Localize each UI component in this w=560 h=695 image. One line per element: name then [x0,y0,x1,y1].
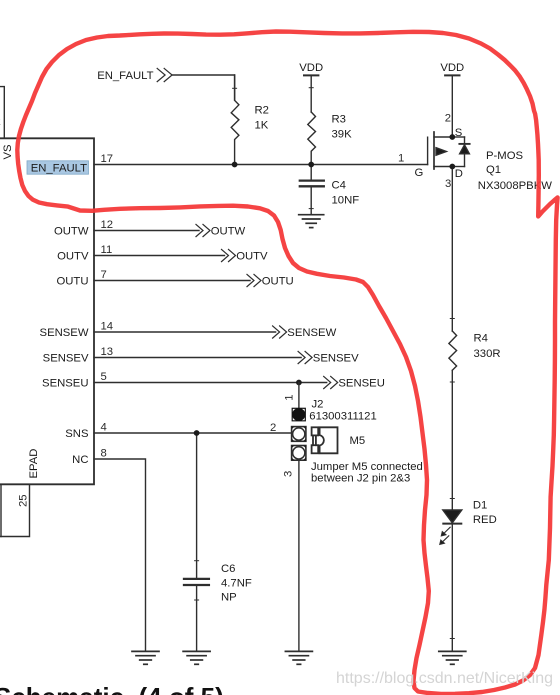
J2 pin number 2 [270,422,276,434]
svg-text:SENSEU: SENSEU [338,378,384,390]
svg-text:G: G [415,167,424,179]
LED D1 emission arrows [440,527,450,544]
junction dot R2/net [232,162,238,168]
svg-text:8: 8 [101,448,107,460]
pin end tick D1 bottom [450,638,454,640]
Q1 pin number 1 [398,153,404,165]
svg-text:S: S [455,127,463,139]
pin number 13 [101,346,114,358]
label R2 value [255,120,269,132]
pin VS stub above IC [0,87,4,139]
label C6 designator [221,563,235,575]
pin name SNS [65,428,89,440]
wire net EN_FAULT pin17 to gate [94,164,428,166]
pin number 17 [101,153,114,165]
svg-text:SENSEW: SENSEW [287,327,336,339]
pin end tick R4 top [450,318,454,320]
svg-text:SENSEW: SENSEW [40,327,89,339]
svg-text:NX3008PBKW: NX3008PBKW [478,180,552,192]
pin name SENSEW [40,327,89,339]
pin number 12 [101,219,114,231]
label Q1 designator [486,164,501,176]
pin number 7 [101,269,107,281]
Q1 pin letter D [455,168,463,180]
IC U1 body (partial, left edge off-canvas) [0,138,94,484]
label R4 designator [474,333,488,345]
svg-text:https://blog.csdn.net/NicerKin: https://blog.csdn.net/NicerKing [336,670,553,687]
svg-text:Q1: Q1 [486,164,501,176]
svg-text:VDD: VDD [299,62,323,74]
clipped pin number at left edge [0,116,1,128]
label R4 value [474,348,501,360]
svg-text:between J2 pin 2&3: between J2 pin 2&3 [311,473,410,485]
wire OUTV [94,255,225,257]
port chevron OUTV [222,249,236,261]
pin end tick C6 top [195,560,199,562]
Q1 pin number 2 [445,113,451,125]
svg-text:2: 2 [0,116,1,128]
svg-text:OUTV: OUTV [57,251,89,263]
pin name NC [72,454,88,466]
pin number 25 (rotated) [18,494,30,507]
junction dot SENSEU/J2 [296,380,302,386]
pin name EPAD (rotated) [28,449,40,479]
svg-text:11: 11 [101,244,113,256]
svg-text:Jumper M5 connected: Jumper M5 connected [311,461,423,473]
ground D1 net [439,651,466,664]
Q1 pin number 3 [445,178,451,190]
svg-text:10NF: 10NF [332,195,360,207]
label J2 part 61300311121 [309,410,376,422]
power VDD rail 2 over Q1 [445,75,459,137]
svg-text:61300311121: 61300311121 [309,410,376,422]
port chevron OUTU [247,274,261,286]
svg-text:P-MOS: P-MOS [486,150,523,162]
pin end tick C4 bottom [309,208,313,210]
svg-text:1: 1 [398,153,404,165]
watermark [336,670,553,687]
svg-text:SENSEV: SENSEV [43,353,89,365]
svg-text:39K: 39K [332,129,353,141]
note jumper text line1 [311,461,423,473]
svg-text:3: 3 [445,178,451,190]
label J2 designator [312,398,324,410]
svg-text:12: 12 [101,219,114,231]
label R2 designator [255,105,269,117]
wire R4 to D1 [451,371,453,511]
pin end tick R2 top [233,87,237,89]
port chevron SENSEV [298,351,312,363]
label D1 designator [473,500,487,512]
junction dot R3/C4 net [308,162,314,168]
port label EN_FAULT [97,70,153,82]
pin name VS (rotated) [2,144,14,160]
pin number 14 [101,321,114,333]
svg-text:2: 2 [270,422,276,434]
svg-text:VDD: VDD [440,62,464,74]
capacitor C6 [184,579,209,585]
ground J2 pin3 [285,651,312,664]
port label SENSEV [313,353,359,365]
wire EN_FAULT port to R2 [172,75,235,100]
svg-text:M5: M5 [350,435,366,447]
svg-text:330R: 330R [474,348,501,360]
pin end tick R3 top [309,87,313,89]
port label SENSEW [287,327,336,339]
pin name OUTU [56,276,88,288]
J2 pin number 1 (rotated) [283,395,295,401]
wire SNS to J2 pin2 [94,432,292,434]
port chevron SENSEU [324,376,338,388]
svg-text:OUTW: OUTW [54,226,89,238]
pin name OUTV [57,251,89,263]
svg-text:4: 4 [101,422,107,434]
pin end tick D1 top [450,498,454,500]
svg-text:OUTU: OUTU [262,276,294,288]
svg-text:R2: R2 [255,105,269,117]
wire SENSEV [94,357,301,359]
svg-text:4.7NF: 4.7NF [221,578,252,590]
wire NC down to ground [94,459,146,651]
svg-text:VS: VS [2,144,14,160]
port label OUTV [236,251,268,263]
svg-text:7: 7 [101,269,107,281]
svg-text:14: 14 [101,321,114,333]
svg-text:RED: RED [473,514,497,526]
port chevron SENSEW [273,326,287,338]
svg-text:C4: C4 [332,180,346,192]
resistor R4 [449,331,457,370]
junction dot Q1 source [449,134,455,140]
pin name SENSEU [42,378,88,390]
pin end tick R4 bottom [450,381,454,383]
label D1 value RED [473,514,497,526]
svg-text:C6: C6 [221,563,235,575]
svg-text:3: 3 [283,471,295,477]
svg-text:NC: NC [72,454,88,466]
connector J2 pin2 pad [292,427,306,442]
svg-text:J2: J2 [312,398,324,410]
junction dot SNS/C6 [194,430,200,436]
resistor R3 [308,112,316,165]
svg-text:R3: R3 [332,114,346,126]
label C6 value [221,578,252,590]
label R3 value [332,129,353,141]
J2 pin number 3 (rotated) [283,471,295,477]
wire Q1 drain down [451,167,453,332]
wire C6 branch [196,433,198,651]
wire OUTU [94,280,250,282]
pin number 4 [101,422,107,434]
pin name OUTW [54,226,89,238]
label Q1 type P-MOS [486,150,523,162]
port label SENSEU [338,378,384,390]
capacitor C4 [300,165,324,215]
note jumper text line2 [311,473,410,485]
connector J2 pin1 riser [298,383,300,408]
label VDD rail1 [299,62,323,74]
Q1 pin letter G [415,167,424,179]
port chevron OUTW [196,224,210,236]
ground under C4 [299,215,324,228]
svg-text:D: D [455,168,463,180]
label C4 value [332,195,360,207]
junction dot Q1 drain [449,164,455,170]
pin number 11 [101,244,113,256]
svg-text:1K: 1K [255,120,269,132]
svg-text:D1: D1 [473,500,487,512]
label R3 designator [332,114,346,126]
connector J2 pin1 pad (filled) [292,408,306,422]
svg-text:NP: NP [221,592,237,604]
svg-text:1: 1 [283,395,295,401]
svg-text:13: 13 [101,346,114,358]
wire SENSEW [94,331,276,333]
LED D1 [443,510,462,651]
net highlight EN_FAULT [27,161,89,175]
pin name SENSEV [43,353,89,365]
EPAD pin 25 stub and box [0,484,30,536]
pin number 5 [101,371,107,383]
label C4 designator [332,180,346,192]
svg-text:Schematic (4 of 5): Schematic (4 of 5) [0,682,224,695]
label M5 designator [350,435,366,447]
label C6 NP [221,592,237,604]
svg-text:EPAD: EPAD [28,449,40,479]
label VDD rail2 [440,62,464,74]
svg-text:5: 5 [101,371,107,383]
wire SENSEU [94,382,327,384]
svg-text:SENSEU: SENSEU [42,378,88,390]
bottom caption [0,682,224,695]
svg-text:25: 25 [18,494,30,507]
jumper M5 symbol [312,427,338,453]
port label OUTU [262,276,294,288]
pin number 8 [101,448,107,460]
svg-text:OUTV: OUTV [236,251,268,263]
power VDD rail 1 [304,75,318,112]
svg-text:SENSEV: SENSEV [313,353,359,365]
wire OUTW [94,230,199,232]
label Q1 part NX3008PBKW [478,180,552,192]
svg-text:EN_FAULT: EN_FAULT [31,163,87,175]
svg-text:OUTU: OUTU [56,276,88,288]
svg-text:2: 2 [445,113,451,125]
ground C6 net [183,651,210,664]
wire J2 pin3 to ground [298,460,300,651]
svg-text:EN_FAULT: EN_FAULT [97,70,153,82]
svg-text:17: 17 [101,153,114,165]
svg-text:OUTW: OUTW [211,226,246,238]
connector J2 pin3 pad [292,446,306,461]
transistor Q1 P-MOS symbol [428,132,470,169]
ground NC net [132,651,159,664]
port label OUTW [211,226,246,238]
svg-text:R4: R4 [474,333,488,345]
svg-text:SNS: SNS [65,428,89,440]
pin end tick C6 bottom [195,599,199,601]
Q1 pin letter S [455,127,463,139]
resistor R2 [231,75,239,165]
port chevron EN_FAULT [157,68,172,81]
